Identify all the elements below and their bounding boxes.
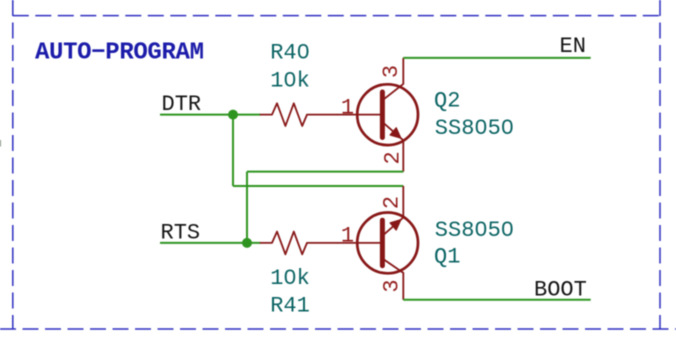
svg-text:2: 2 xyxy=(380,196,405,209)
edge clipped mark xyxy=(0,140,1,147)
svg-text:1: 1 xyxy=(341,224,354,249)
wire Q2 emitter down xyxy=(247,171,403,173)
Q1 base bar xyxy=(380,220,385,266)
resistor R41 xyxy=(261,232,338,255)
svg-text:DTR: DTR xyxy=(162,92,202,117)
sheet dashed border bottom xyxy=(0,328,676,330)
Q1 circle body xyxy=(357,213,418,274)
wire down to RTS junction xyxy=(246,172,248,243)
transistor Q2 SS8050 xyxy=(337,58,418,172)
svg-text:3: 3 xyxy=(379,279,404,292)
Q2 base pin xyxy=(337,114,380,116)
svg-text:2: 2 xyxy=(381,151,406,164)
Q1 emitter arrow xyxy=(390,220,401,230)
Q2 circle body xyxy=(357,84,418,145)
Q1 collector line and pin xyxy=(382,259,403,300)
svg-text:1: 1 xyxy=(341,95,354,120)
svg-text:EN: EN xyxy=(560,34,586,59)
wire DTR junction down xyxy=(232,115,234,186)
sheet dashed border right xyxy=(659,0,661,329)
Q2 emitter arrow xyxy=(390,128,401,138)
Q2 collector line and pin xyxy=(382,58,403,100)
wire EN xyxy=(403,57,590,59)
svg-text:R41: R41 xyxy=(270,294,310,319)
svg-text:SS8050: SS8050 xyxy=(435,116,514,141)
svg-text:Q1: Q1 xyxy=(434,245,460,270)
wire RTS horizontal xyxy=(160,242,261,244)
junction RTS node xyxy=(242,238,252,248)
wire DTR horizontal xyxy=(160,114,261,116)
Q1 base pin xyxy=(337,242,380,244)
resistor R40 xyxy=(261,103,338,126)
transistor Q1 SS8050 xyxy=(337,186,418,300)
svg-text:Q2: Q2 xyxy=(434,89,460,114)
svg-text:RTS: RTS xyxy=(161,220,201,245)
svg-text:3: 3 xyxy=(379,65,404,78)
sheet dashed border left xyxy=(12,0,14,329)
zero dot covers (stroke-font zeros have no dot) xyxy=(288,49,510,279)
sheet dashed border top xyxy=(13,15,660,17)
junction DTR node xyxy=(228,110,238,120)
svg-text:AUTO−PROGRAM: AUTO−PROGRAM xyxy=(35,39,204,66)
wire BOOT xyxy=(403,299,590,301)
wire cross to Q1 emitter xyxy=(233,185,403,187)
Q1 emitter line and pin xyxy=(382,186,403,236)
svg-text:SS8050: SS8050 xyxy=(435,218,514,243)
Q2 emitter line and pin xyxy=(382,122,403,172)
Q2 base bar xyxy=(380,92,385,138)
